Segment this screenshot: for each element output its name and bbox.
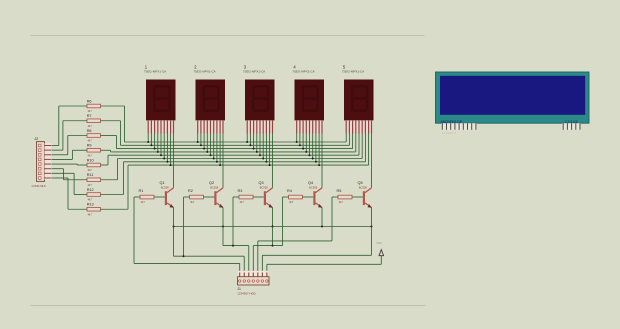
transistor Q1 (BC558) <box>160 181 174 208</box>
wire display 2 common pin to Q2 collector <box>222 134 224 188</box>
svg-text:Q2: Q2 <box>209 181 214 185</box>
power terminal VCC <box>376 241 383 256</box>
wire R13 to segment bus <box>101 165 129 209</box>
resistor R6 <box>87 99 101 113</box>
wire R12 to segment bus <box>101 162 124 195</box>
svg-text:Q1: Q1 <box>160 181 165 185</box>
svg-text:7SEG-MPX1-CA: 7SEG-MPX1-CA <box>292 70 314 74</box>
transistor Q5 (BC558) <box>357 181 371 208</box>
wire R5 leads <box>332 196 363 198</box>
svg-text:R10: R10 <box>87 158 94 162</box>
transistor Q4 (BC558) <box>308 181 322 208</box>
wire Q3 emitter to rail <box>272 208 274 227</box>
svg-text:R7: R7 <box>87 114 92 118</box>
svg-text:R2: R2 <box>188 189 193 193</box>
svg-text:R11: R11 <box>87 173 94 177</box>
blue display digit pins <box>562 123 581 130</box>
svg-text:1 2 3 4 5 6 7 8: 1 2 3 4 5 6 7 8 <box>442 133 457 135</box>
svg-text:Q3: Q3 <box>258 181 263 185</box>
svg-text:R4: R4 <box>287 189 292 193</box>
wire R5 to J1 pin 5 <box>258 197 332 273</box>
svg-text:Q4: Q4 <box>308 181 313 185</box>
7-segment display 4 (7SEG-MPX1-CA) <box>292 64 324 133</box>
wire J2 pin 3 to R8 <box>52 136 87 155</box>
7-segment display 5 (7SEG-MPX1-CA) <box>342 64 374 133</box>
wire segment bus D <box>111 151 356 153</box>
wires display 2 segment pins to bus <box>197 134 221 167</box>
7-segment display 2 (7SEG-MPX1-CA) <box>193 64 225 133</box>
svg-text:R5: R5 <box>336 189 341 193</box>
resistor R1 <box>139 189 154 204</box>
wire segment bus DP <box>128 164 369 166</box>
wire R7 to segment bus <box>101 121 121 146</box>
wire Q2 emitter to rail <box>222 208 224 227</box>
svg-text:J1: J1 <box>237 287 241 291</box>
svg-text:R13: R13 <box>87 203 94 207</box>
wire rail drop / R2 to J1 pin 2 <box>174 197 245 273</box>
wire power terminal to J1 pin 7 <box>267 256 381 273</box>
wire R9 to segment bus <box>101 150 111 152</box>
wire display 5 common pin to Q5 collector <box>371 134 373 188</box>
resistor R3 <box>238 189 253 204</box>
wire Q3 emitter ext / R4 to J1 pin 4 <box>253 197 282 273</box>
svg-text:1234567-HDD: 1234567-HDD <box>237 292 255 296</box>
wire segment bus F <box>118 158 363 160</box>
wire segment bus G <box>124 161 366 163</box>
wire Q5 emitter to rail <box>371 208 373 227</box>
resistor R11 <box>87 173 101 187</box>
svg-text:R6: R6 <box>87 99 92 103</box>
wire J2 pin 8 to R13 <box>52 178 87 209</box>
wire display 4 common pin to Q4 collector <box>321 134 323 188</box>
junction dots on emitter rail <box>173 226 373 228</box>
wire R8 to segment bus <box>101 136 117 149</box>
wires display 3 segment pins to bus <box>246 134 270 167</box>
wire R3 leads <box>233 196 264 198</box>
wire segment bus B <box>121 144 350 146</box>
wire segment bus C <box>117 148 353 150</box>
svg-text:Q5: Q5 <box>357 181 362 185</box>
resistor R7 <box>87 114 101 128</box>
svg-text:R8: R8 <box>87 129 92 133</box>
wires display 4 segment pins to bus <box>296 134 320 167</box>
wire R11 to segment bus <box>101 159 118 180</box>
transistor Q3 (BC558) <box>258 181 272 208</box>
wire J2 pin 1 to R6 <box>52 106 87 146</box>
wires display 1 segment pins to bus <box>147 134 171 167</box>
wire J2 pin 2 to R7 <box>52 121 87 150</box>
wire display 3 common pin to Q3 collector <box>272 134 274 188</box>
svg-text:R1: R1 <box>139 189 144 193</box>
svg-text:R12: R12 <box>87 188 94 192</box>
wire emitter rail <box>174 226 372 228</box>
wires display 5 segment pins to bus <box>346 134 368 166</box>
resistor R5 <box>336 189 352 204</box>
connector J1 (7-pin header) <box>237 271 269 296</box>
resistor R10 <box>87 158 101 172</box>
transistor Q2 (BC558) <box>209 181 223 208</box>
svg-text:VCC: VCC <box>376 241 382 245</box>
resistor R12 <box>87 188 101 202</box>
wire Q1 emitter to rail <box>173 208 175 227</box>
wire R2 leads <box>184 196 215 198</box>
svg-text:7SEG-MPX1-CA: 7SEG-MPX1-CA <box>243 70 265 74</box>
connector J2 (CONN-SIL8) <box>32 137 52 188</box>
wire display 1 common pin to Q1 collector <box>173 134 175 188</box>
svg-text:R3: R3 <box>238 189 243 193</box>
svg-text:R9: R9 <box>87 144 92 148</box>
resistor R8 <box>87 129 101 143</box>
blue display module (7SEG-MPX5 panel) <box>436 72 590 124</box>
wire R1 to J1 pin 1 <box>134 197 240 273</box>
resistor R9 <box>87 144 101 158</box>
wire R1 leads <box>134 196 165 198</box>
svg-text:J2: J2 <box>34 137 38 141</box>
wire J2 pin 5 to R10 <box>52 163 87 166</box>
resistor R13 <box>87 203 101 217</box>
resistor R2 <box>188 189 203 204</box>
wire Q2 emitter ext / R3 to J1 pin 3 <box>223 197 249 273</box>
wire segment bus E <box>108 154 359 156</box>
wire J2 pin 7 to R12 <box>52 173 87 194</box>
wire J2 pin 4 to R9 <box>52 150 87 159</box>
wire R4 leads <box>283 196 314 198</box>
wire R10 to segment bus <box>101 155 109 165</box>
wire Q4 emitter to rail <box>321 208 323 227</box>
resistor R4 <box>287 189 303 204</box>
svg-text:7SEG-MPX1-CA: 7SEG-MPX1-CA <box>193 70 215 74</box>
wire J2 pin 6 to R11 <box>52 169 87 180</box>
blue display segment pins <box>441 123 477 134</box>
wire Q5 emitter ext to J1 pin 6 <box>262 227 371 273</box>
wire R6 to segment bus <box>101 106 125 142</box>
7-segment display 1 (7SEG-MPX1-CA) <box>144 64 176 133</box>
svg-text:7SEG-MPX1-CA: 7SEG-MPX1-CA <box>144 70 166 74</box>
svg-text:7SEG-MPX1-CA: 7SEG-MPX1-CA <box>342 70 364 74</box>
7-segment display 3 (7SEG-MPX1-CA) <box>243 64 275 133</box>
wire segment bus A <box>125 141 347 143</box>
